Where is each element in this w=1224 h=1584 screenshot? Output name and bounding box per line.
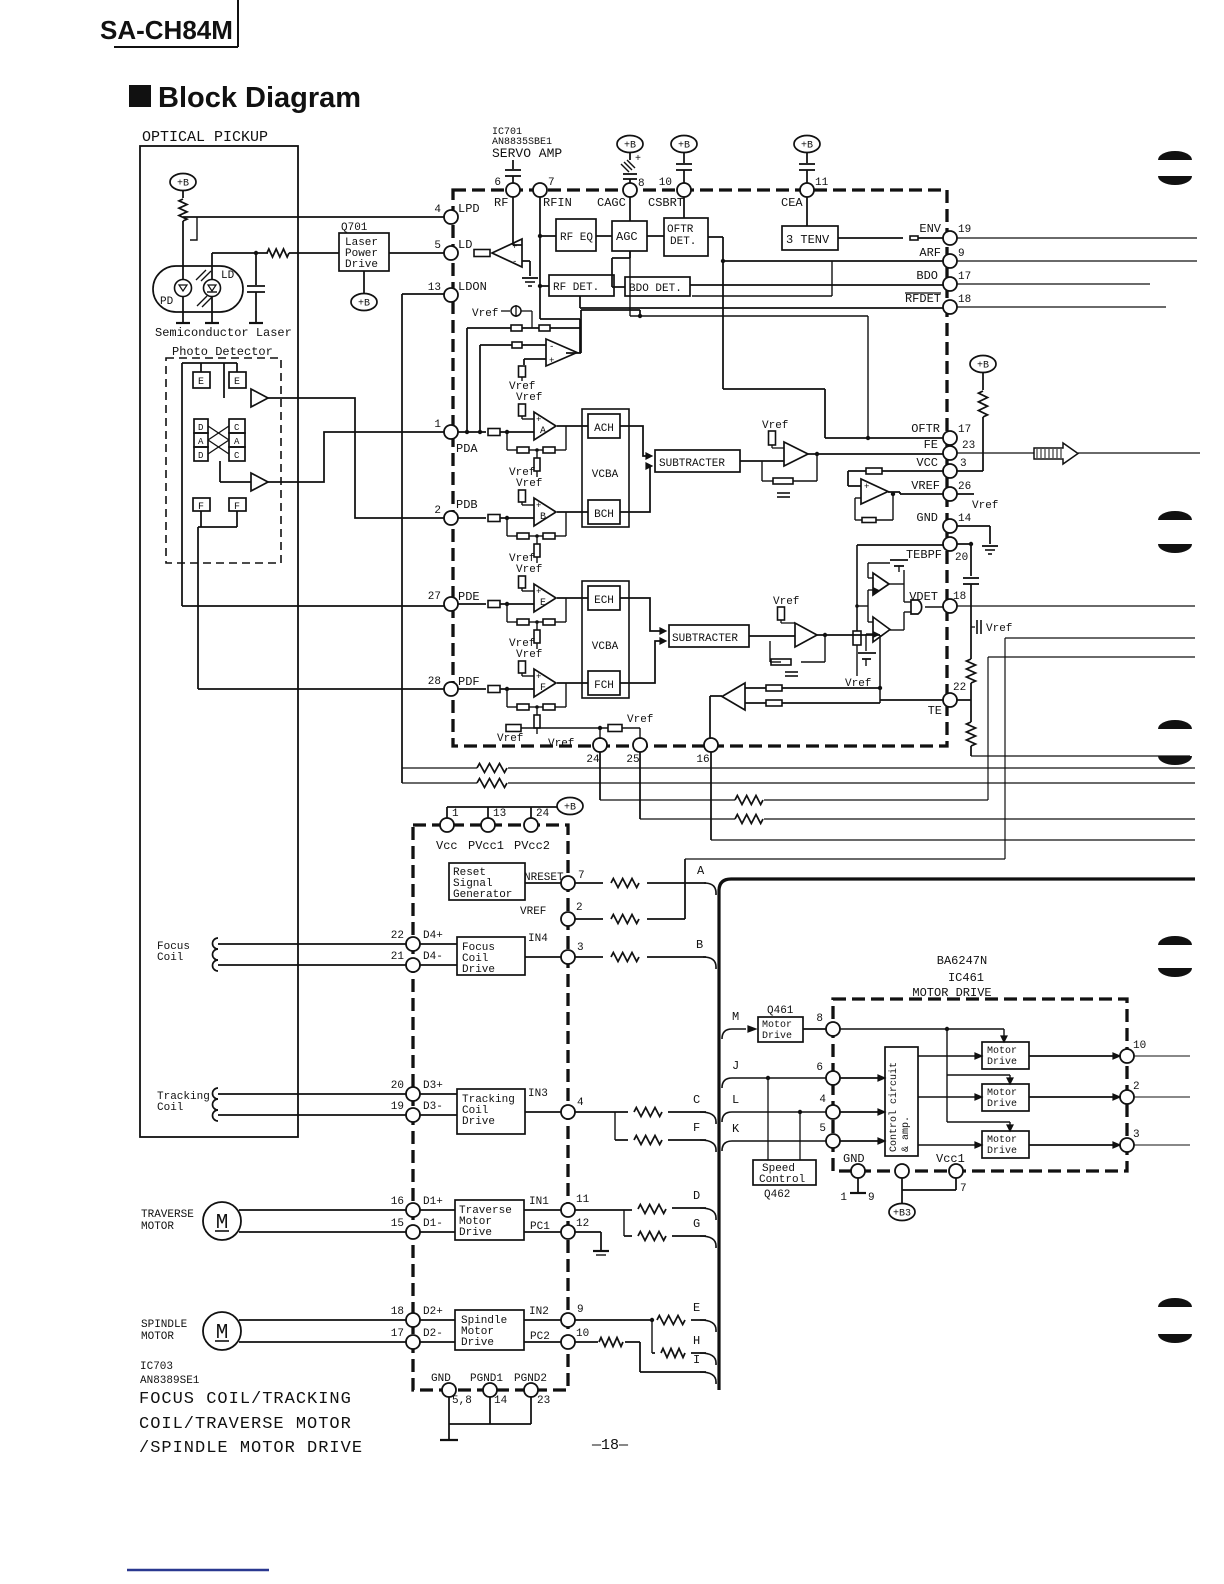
svg-text:Motor: Motor (987, 1135, 1017, 1146)
node B merge (696, 938, 716, 969)
resistor (TE chain lower) (967, 700, 976, 756)
svg-text:10: 10 (1133, 1040, 1146, 1052)
cell C2 (229, 447, 245, 461)
pin PGND2 (514, 1373, 550, 1407)
svg-text:PDB: PDB (456, 498, 478, 512)
svg-text:Vref: Vref (845, 678, 871, 690)
wire ch E feedback (505, 598, 566, 622)
svg-text:F: F (693, 1121, 700, 1135)
wire RFIN to RF DET (538, 284, 549, 288)
svg-text:Vref: Vref (516, 649, 542, 661)
power +B3 (889, 1178, 915, 1221)
cell F right (229, 498, 246, 513)
pin 19 D3- (391, 1101, 443, 1122)
pin 13 LDON (428, 280, 487, 302)
wire pin24 up (598, 726, 602, 739)
cell F left (193, 498, 210, 513)
wire ACH to subtracter (620, 426, 648, 456)
wire CSBRT to OFTR DET (683, 197, 685, 218)
svg-text:VCBA: VCBA (592, 469, 619, 481)
svg-text:18: 18 (391, 1306, 404, 1318)
cell A right (229, 433, 245, 447)
pin 10 CSBRT (648, 177, 691, 210)
svg-text:PC2: PC2 (530, 1331, 550, 1343)
pin bias (IC461) (895, 1164, 909, 1178)
wire focus drive to pin 3 (525, 933, 561, 957)
svg-text:13: 13 (428, 282, 441, 294)
svg-text:Vcc: Vcc (436, 839, 458, 853)
photo detector label (172, 345, 273, 359)
resistor (ch F fb1) (517, 704, 529, 710)
pin 8 (IC461) (816, 1013, 840, 1036)
arrow (FE off-page) (1034, 443, 1078, 464)
cell E right (229, 372, 246, 388)
wire RFDET to edge (957, 306, 1166, 308)
resistor (vref buffer fb) (862, 518, 876, 523)
block AGC (612, 221, 647, 251)
svg-text:23: 23 (962, 440, 975, 452)
svg-text:2: 2 (1133, 1081, 1140, 1093)
pin 3 VCC (916, 456, 966, 478)
resistor (VCC) (979, 391, 988, 417)
pin 5 LD (434, 238, 472, 260)
svg-text:26: 26 (958, 481, 971, 493)
block spindle motor drive (455, 1310, 524, 1350)
wire RFIN down (540, 197, 580, 353)
resistor (laser +B) (179, 199, 187, 221)
svg-text:TRAVERSE: TRAVERSE (141, 1209, 194, 1221)
wire L3 bend (988, 657, 1195, 800)
svg-text:Drive: Drive (987, 1056, 1017, 1068)
pin 10 PC2 (561, 1328, 589, 1349)
svg-text:RF: RF (494, 196, 508, 210)
wire rail to Vref (856, 645, 858, 676)
svg-text:SERVO AMP: SERVO AMP (492, 146, 562, 161)
optical pickup enclosure (140, 129, 298, 1137)
svg-text:D3-: D3- (423, 1101, 443, 1113)
svg-text:+: + (536, 501, 541, 511)
block RF DET (549, 275, 614, 296)
wire AGC to BDO DET (612, 251, 630, 287)
wire ch B feedback (505, 512, 566, 536)
svg-text:GND: GND (843, 1152, 865, 1166)
svg-text:K: K (732, 1122, 740, 1136)
wire trunk (719, 879, 1195, 1390)
op-amp E (534, 584, 556, 612)
svg-text:Motor: Motor (987, 1088, 1017, 1099)
wire CEA to 3 TENV (806, 197, 808, 226)
binder punch mark 5 (1158, 1298, 1192, 1343)
wire RFDET out (580, 296, 944, 308)
wire bus L1 (402, 767, 1195, 769)
svg-text:25: 25 (626, 754, 639, 766)
svg-text:SA-CH84M: SA-CH84M (100, 15, 233, 45)
IC703 AN8389SE1 driver box (413, 825, 568, 1390)
node C merge (693, 1093, 716, 1124)
wire amp to FCH (557, 682, 588, 684)
block BCH (588, 500, 620, 524)
svg-text:LD: LD (221, 270, 235, 282)
svg-text:E: E (540, 598, 546, 609)
svg-text:CAGC: CAGC (597, 196, 626, 210)
svg-text:+: + (635, 154, 641, 165)
pin 11 IN1 (561, 1194, 590, 1217)
svg-text:Drive: Drive (345, 259, 378, 271)
trimmer (pin 8) (621, 154, 641, 184)
pin 1 PDA (434, 419, 478, 456)
cell A left (194, 433, 208, 447)
pin 22 D4+ (391, 930, 443, 951)
pin 15 D1- (391, 1218, 443, 1239)
svg-text:+B: +B (564, 803, 576, 814)
wire AGC to OFTR junction (630, 251, 870, 440)
capacitor (comparator top) (868, 560, 908, 572)
wire pgnd join (449, 1397, 531, 1424)
block OFTR DET (664, 218, 708, 256)
svg-text:Drive: Drive (462, 964, 495, 976)
svg-text:TEBPF: TEBPF (906, 548, 942, 562)
resistor (TE amp) (778, 607, 796, 623)
wire vref buffer fb (855, 492, 895, 520)
wire drive1 to pin 10 (1029, 1053, 1120, 1059)
svg-text:5,8: 5,8 (452, 1395, 472, 1407)
wire E net to pin PDE (182, 363, 444, 606)
wire amp2 to pin PDA (268, 432, 444, 482)
wire amp to ACH (557, 425, 588, 427)
wire TEBPF pin (857, 545, 944, 631)
svg-text:+B3: +B3 (893, 1209, 911, 1220)
svg-text:IC703: IC703 (140, 1361, 173, 1373)
pin 27 PDE (428, 590, 480, 611)
photodiode PD (160, 280, 192, 309)
wire FE out (808, 453, 944, 455)
svg-text:ECH: ECH (594, 595, 614, 607)
block focus coil drive (457, 937, 525, 976)
wire drive3 to pin 3 (1029, 1142, 1120, 1148)
node Vref (TE amp) (773, 596, 799, 608)
resistor (wire G) (638, 1232, 666, 1241)
svg-text:+: + (536, 587, 541, 597)
svg-text:MOTOR: MOTOR (141, 1331, 174, 1343)
svg-text:C: C (234, 423, 240, 433)
svg-text:17: 17 (958, 424, 971, 436)
resistor (ch B input) (488, 515, 500, 522)
wire VREF703 (575, 859, 685, 919)
resistor (ch E input) (488, 601, 500, 608)
wire pin16 down L7a (711, 752, 1195, 840)
resistor (L1) (477, 764, 507, 773)
tracking coil (157, 1088, 218, 1121)
svg-text:Semiconductor Laser: Semiconductor Laser (155, 326, 292, 340)
svg-text:IC461: IC461 (948, 971, 984, 985)
wire GND pin (957, 526, 998, 554)
svg-text:17: 17 (391, 1328, 404, 1340)
svg-text:3: 3 (960, 458, 967, 470)
gate (VDET or) (911, 600, 922, 614)
resistor (wire F) (634, 1136, 662, 1145)
svg-text:B: B (696, 938, 703, 952)
VCBA box 1 (582, 409, 629, 527)
wire tracking drive to pin 4 (525, 1088, 561, 1112)
svg-text:-: - (512, 257, 517, 267)
wire pin25 up (639, 728, 641, 739)
wire FE feedback (762, 452, 819, 481)
wire Vcc1 (902, 1178, 967, 1195)
svg-text:VDET: VDET (909, 590, 938, 604)
pin 26 VREF (911, 479, 971, 501)
resistor (TE fb) (771, 659, 791, 665)
svg-text:5: 5 (819, 1123, 826, 1135)
svg-text:OFTR: OFTR (911, 422, 940, 436)
laser diode LD (204, 270, 235, 297)
svg-text:ENV: ENV (919, 222, 941, 236)
svg-text:PGND1: PGND1 (470, 1373, 503, 1385)
wire RFIN to RF EQ (538, 234, 556, 238)
resistor (bottom 2) (608, 714, 653, 732)
svg-text:D2+: D2+ (423, 1306, 443, 1318)
svg-text:D2-: D2- (423, 1328, 443, 1340)
IC701 AN8835SBE1 servo amp box (453, 127, 947, 746)
resistor (ch E fb2) (543, 619, 555, 625)
svg-text:Drive: Drive (462, 1116, 495, 1128)
wire ECH to subtracter2 (620, 598, 662, 631)
svg-text:—18—: —18— (591, 1437, 629, 1454)
cell E left (193, 372, 210, 388)
pin 18 D2+ (391, 1306, 443, 1327)
pin 17 BDO (916, 269, 971, 291)
svg-text:A: A (697, 864, 705, 878)
binder punch mark 1 (1158, 151, 1192, 185)
resistor (L6) (735, 815, 763, 824)
svg-text:Photo Detector: Photo Detector (172, 345, 273, 359)
pin 4 IN3 (561, 1097, 584, 1119)
svg-text:11: 11 (576, 1194, 590, 1206)
wire coils to tracking drive (420, 1094, 457, 1115)
pin 9 ARF (919, 246, 964, 268)
svg-text:Drive: Drive (461, 1337, 494, 1349)
svg-text:PD: PD (160, 296, 174, 308)
binder punch mark 2 (1158, 511, 1192, 553)
resistor (ch A fb2) (543, 447, 555, 453)
svg-text:RFDET: RFDET (905, 292, 941, 306)
traverse motor (141, 1202, 241, 1240)
svg-text:PC1: PC1 (530, 1221, 550, 1233)
wire pin24 down L5 (600, 752, 988, 800)
svg-text:L: L (732, 1093, 739, 1107)
node Vref (FE amp) (762, 420, 788, 432)
pin 7 NRESET (524, 870, 585, 890)
node Vref (VREF pin) (957, 494, 998, 512)
wire RF EQ to AGC (596, 235, 612, 237)
wire amp to ECH (557, 597, 588, 599)
svg-text:24: 24 (536, 808, 550, 820)
pin 2 (IC461) (1120, 1081, 1140, 1104)
wire OFTR path (723, 389, 944, 438)
svg-text:E: E (693, 1301, 700, 1315)
wire B (575, 956, 706, 958)
wire H branch (650, 1318, 706, 1353)
wire bus L2 (402, 782, 1195, 784)
svg-text:FOCUS COIL/TRACKING: FOCUS COIL/TRACKING (139, 1390, 352, 1409)
svg-text:+: + (536, 415, 541, 425)
block SUBTRACTER 1 (646, 450, 740, 472)
pin 14 GND (916, 511, 971, 533)
wire buffer plus (524, 359, 546, 365)
svg-text:AGC: AGC (616, 230, 638, 244)
svg-text:BDO DET.: BDO DET. (629, 283, 682, 295)
wire Vcc rail (447, 807, 557, 818)
svg-text:C: C (234, 451, 240, 461)
pin GND (IC703) (431, 1373, 472, 1407)
capacitor (pin 11) (799, 164, 815, 184)
wire I (575, 1342, 706, 1372)
svg-text:Vref: Vref (516, 478, 542, 490)
svg-text:TE: TE (928, 704, 942, 718)
transistor Q701 laser power drive (339, 222, 389, 271)
svg-text:OPTICAL PICKUP: OPTICAL PICKUP (142, 129, 268, 146)
light arrows (196, 270, 212, 307)
wire C (575, 1111, 706, 1113)
svg-text:Vref: Vref (472, 308, 498, 320)
capacitor (LD line) (247, 251, 265, 323)
cell D (194, 419, 208, 433)
resistor (TE chain upper) (967, 659, 976, 700)
pin 2 VREF (520, 902, 583, 926)
svg-text:4: 4 (577, 1097, 584, 1109)
resistor (wire I) (599, 1338, 623, 1347)
resistor (wire D) (638, 1205, 666, 1214)
resistor (vref buffer) (866, 468, 882, 474)
svg-text:+B: +B (678, 141, 690, 152)
semiconductor laser package (153, 266, 243, 312)
svg-text:IN1: IN1 (529, 1196, 549, 1208)
op-amp B (534, 498, 556, 526)
op-amp (comparator lower) (873, 617, 890, 642)
pin 28 PDF (428, 675, 480, 696)
svg-text:Drive: Drive (987, 1098, 1017, 1110)
svg-text:VCBA: VCBA (592, 641, 619, 653)
power +B (Q701) (351, 271, 377, 311)
resistor (buffer vref) (519, 366, 526, 381)
wire G branch (624, 1210, 706, 1236)
wire cells to amp2 (220, 461, 251, 482)
wire drive out to pin 16 (710, 696, 722, 739)
node Vref (ch B b) (516, 478, 542, 490)
svg-text:A: A (234, 437, 240, 447)
node Vref (ch A b) (516, 392, 542, 404)
resistor (ch F vref) (519, 661, 535, 676)
svg-text:22: 22 (391, 930, 404, 942)
resistor (ch F fb vref) (534, 705, 540, 734)
svg-text:RFIN: RFIN (543, 196, 572, 210)
svg-text:GND: GND (916, 511, 938, 525)
svg-text:Motor: Motor (762, 1020, 792, 1031)
svg-text:A: A (198, 437, 204, 447)
svg-text:C: C (693, 1093, 700, 1107)
svg-text:18: 18 (958, 294, 971, 306)
svg-text:LPD: LPD (458, 202, 480, 216)
wire ARF to BDO det (692, 261, 832, 296)
svg-text:22: 22 (953, 682, 966, 694)
resistor (ch B fb vref) (534, 534, 540, 563)
svg-text:LDON: LDON (458, 280, 487, 294)
resistor (buffer in 1) (511, 325, 522, 331)
node E merge (693, 1301, 716, 1332)
svg-text:D4-: D4- (423, 951, 443, 963)
resistor (ch A fb vref) (534, 448, 540, 477)
node M exit (722, 1010, 746, 1039)
svg-text:CEA: CEA (781, 196, 803, 210)
block motor drive 2 (982, 1084, 1029, 1111)
wire PC1 ground (575, 1232, 609, 1255)
pin 21 D4- (391, 951, 443, 972)
wire sub2 to amp (749, 635, 795, 637)
resistor (wire C) (634, 1108, 662, 1117)
svg-text:20: 20 (955, 552, 968, 564)
svg-text:7: 7 (578, 870, 585, 882)
svg-text:Drive: Drive (987, 1145, 1017, 1157)
wire TE chain top (957, 542, 973, 576)
svg-text:20: 20 (391, 1080, 404, 1092)
wire buffer out to pin 26 (888, 492, 944, 494)
wire BDO to edge (957, 283, 1150, 285)
pin 25 (626, 738, 647, 766)
wire ARF (708, 237, 944, 389)
op-amp F (534, 669, 556, 697)
node Vref (trimmer) (472, 305, 532, 328)
svg-text:M: M (732, 1010, 739, 1024)
svg-text:SPINDLE: SPINDLE (141, 1319, 188, 1331)
block motor drive 3 (982, 1131, 1029, 1158)
pin GND (IC461) (843, 1152, 865, 1178)
wire FE to edge (957, 452, 1200, 454)
pin 24 (586, 738, 607, 766)
wire outputs to edge (1134, 1056, 1190, 1145)
resistor (FE amp) (769, 431, 785, 448)
capacitor (pin 6) (505, 160, 521, 184)
wire buffer out (566, 310, 642, 353)
wire E cells to bus (182, 363, 237, 398)
power +B (IC703) (557, 798, 583, 815)
svg-text:6: 6 (816, 1062, 823, 1074)
svg-text:BCH: BCH (594, 509, 614, 521)
resistor (LD line) (267, 249, 289, 257)
crossing wires between cells (208, 426, 229, 454)
resistor (wire E) (657, 1316, 685, 1325)
svg-text:Vref: Vref (497, 733, 523, 745)
node Vref (ch F b) (516, 649, 542, 661)
op-amp (FE) (784, 442, 808, 466)
wire pin25 down L6 (640, 752, 1195, 819)
resistor (comparator rail) (853, 631, 861, 645)
svg-text:+: + (549, 356, 554, 366)
svg-text:4: 4 (819, 1094, 826, 1106)
node Vref (ch F a) (509, 638, 535, 650)
svg-text:Motor: Motor (987, 1046, 1017, 1057)
wire Q461 to pin 8 (803, 1028, 826, 1030)
pin 17 OFTR (911, 422, 971, 445)
title box SA-CH84M (100, 0, 238, 47)
svg-text:FE: FE (924, 438, 938, 452)
svg-text:7: 7 (548, 177, 555, 189)
text driver title (139, 1390, 363, 1458)
wire ARF to edge (957, 260, 1197, 262)
resistor (ch E fb vref) (534, 620, 540, 649)
block traverse motor drive (455, 1200, 524, 1240)
block ACH (588, 414, 620, 438)
resistor (wire A) (611, 879, 639, 888)
power +B (laser) (170, 174, 196, 199)
